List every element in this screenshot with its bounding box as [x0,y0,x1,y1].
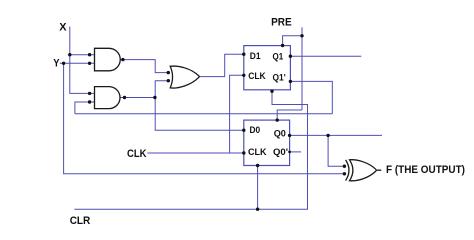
svg-text:PRE: PRE [271,17,292,29]
svg-text:CLK: CLK [248,147,267,158]
svg-text:Y: Y [53,57,60,69]
svg-text:Q0: Q0 [274,129,286,140]
svg-text:CLK: CLK [127,148,147,160]
svg-text:Q0': Q0' [273,147,288,158]
svg-text:D1: D1 [250,51,261,62]
svg-text:F (THE OUTPUT): F (THE OUTPUT) [386,164,465,176]
svg-text:CLK: CLK [248,71,266,82]
svg-text:Q1: Q1 [273,51,284,62]
svg-text:X: X [59,22,67,34]
svg-text:D0: D0 [250,125,261,136]
svg-text:CLR: CLR [70,215,91,227]
svg-text:Q1': Q1' [273,72,286,83]
